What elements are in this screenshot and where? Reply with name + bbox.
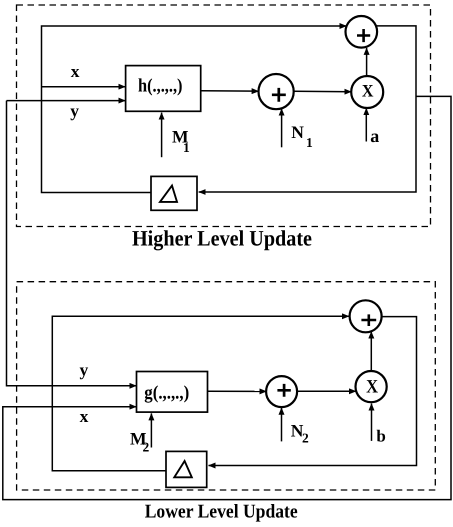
svg-text:X: X bbox=[362, 81, 374, 101]
svg-text:a: a bbox=[370, 126, 379, 146]
label M1 bbox=[172, 126, 190, 155]
label b bbox=[376, 427, 385, 446]
label N2 bbox=[291, 420, 309, 445]
wire multiplier X2 output up to adder A3 bbox=[370, 332, 372, 372]
svg-text:y: y bbox=[70, 101, 79, 121]
label y (higher) bbox=[70, 101, 79, 121]
svg-text:N: N bbox=[291, 122, 304, 142]
svg-text:1: 1 bbox=[306, 135, 313, 150]
svg-text:b: b bbox=[376, 427, 385, 446]
wire adder A0 output to delay D1 input (loop right) bbox=[199, 26, 416, 192]
label x (higher) bbox=[71, 61, 80, 81]
svg-text:2: 2 bbox=[143, 440, 150, 455]
label y (lower) bbox=[80, 360, 89, 380]
adder A0 (top) bbox=[346, 16, 378, 48]
delay D1 bbox=[151, 176, 197, 210]
adder A3 (lower top) bbox=[350, 300, 382, 332]
wire N2 input into adder A2 bbox=[281, 408, 283, 442]
wire M1 input into block h bbox=[161, 113, 163, 158]
wire block h output to adder A1 bbox=[201, 90, 259, 92]
wire block g output to adder A2 bbox=[208, 390, 267, 392]
svg-text:y: y bbox=[80, 360, 89, 380]
wire y into block h bbox=[7, 100, 126, 102]
svg-text:h(.,.,.,): h(.,.,.,) bbox=[138, 76, 183, 97]
lower level dashed box bbox=[17, 282, 436, 490]
delay D2 bbox=[166, 451, 207, 487]
wire delay D2 output to adder A3 input (lower loop left/top) bbox=[52, 316, 349, 471]
label N1 bbox=[291, 122, 313, 150]
svg-text:Higher Level Update: Higher Level Update bbox=[132, 226, 312, 251]
svg-text:1: 1 bbox=[183, 140, 190, 155]
wire M2 input into block g bbox=[150, 413, 152, 447]
adder A2 bbox=[266, 376, 297, 407]
block h bbox=[126, 66, 201, 112]
svg-text:2: 2 bbox=[302, 431, 309, 446]
wire a input into multiplier X1 bbox=[365, 108, 367, 141]
wire adder A3 output to delay D2 input (lower loop right) bbox=[209, 317, 417, 466]
label M2 bbox=[130, 429, 150, 455]
label Lower Level Update bbox=[145, 502, 298, 523]
svg-text:Lower Level Update: Lower Level Update bbox=[145, 502, 298, 523]
wire multiplier X1 output up to adder A0 bbox=[366, 48, 368, 76]
higher level dashed box bbox=[17, 5, 431, 227]
block g bbox=[137, 372, 208, 413]
svg-text:g(.,.,.,): g(.,.,.,) bbox=[144, 383, 189, 404]
multiplier X2 bbox=[356, 371, 387, 402]
svg-text:x: x bbox=[71, 61, 80, 81]
label a bbox=[370, 126, 379, 146]
label x (lower) bbox=[80, 406, 89, 426]
wire y down to block g y-input bbox=[7, 101, 137, 386]
svg-text:X: X bbox=[366, 377, 378, 398]
wire N1 input into adder A1 bbox=[281, 109, 283, 148]
multiplier X1 bbox=[351, 76, 383, 108]
wire b input into multiplier X2 bbox=[371, 404, 373, 441]
label Higher Level Update bbox=[132, 226, 312, 251]
adder A1 bbox=[259, 74, 294, 109]
wire adder A2 output to multiplier X2 bbox=[297, 390, 356, 392]
wire delay D1 output to adder A0 input (feedback loop left/top) bbox=[42, 26, 347, 193]
wire x input into block h bbox=[42, 86, 126, 88]
wire adder A1 output to multiplier X1 bbox=[294, 90, 352, 93]
wire higher output branch down to block g x-input bbox=[3, 96, 451, 499]
svg-text:x: x bbox=[80, 406, 89, 426]
